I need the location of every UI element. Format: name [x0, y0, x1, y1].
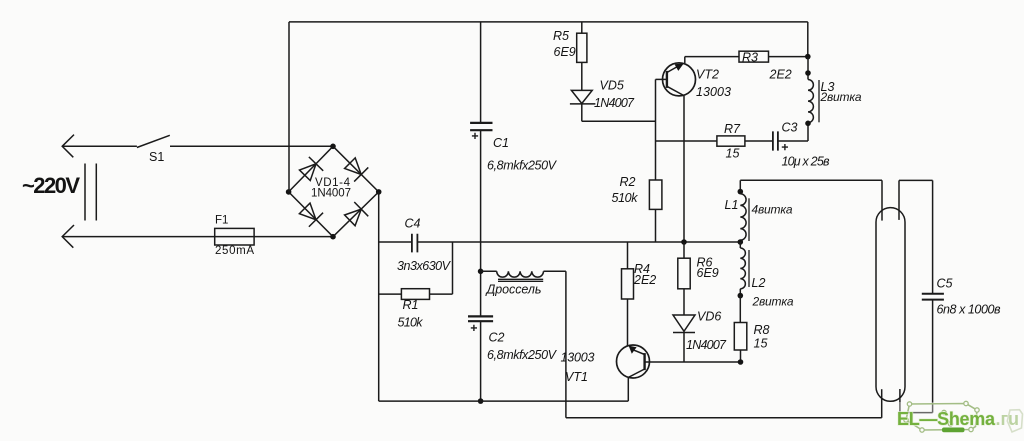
lamp pin bottom-right	[899, 389, 901, 413]
resistor R5	[581, 22, 583, 91]
wire: switch to bridge top	[170, 145, 333, 147]
wire: mid rail	[379, 241, 741, 243]
wire: top rail drop to R3 node	[807, 22, 809, 57]
svg-text:6E9: 6E9	[554, 45, 576, 59]
svg-text:VD5: VD5	[600, 79, 624, 93]
wire: lamp top right to C5	[899, 179, 933, 181]
wire: top lamp wire	[740, 179, 882, 181]
svg-text:2E2: 2E2	[769, 67, 792, 81]
fuse F1	[215, 228, 254, 245]
svg-text:~220V: ~220V	[22, 173, 80, 198]
diode VD2 (upper-right)	[343, 156, 368, 181]
node: R3/L3 junction	[805, 54, 811, 60]
wire: VD5 to base line	[582, 120, 656, 122]
svg-text:Дроссель: Дроссель	[485, 283, 542, 297]
transistor VT1	[617, 345, 650, 378]
node: L1/L2 mid rail junction	[738, 239, 744, 245]
lamp pin top-right	[898, 180, 900, 220]
wire: mains bottom to fuse	[62, 236, 215, 238]
resistor R6	[683, 242, 685, 315]
wire: VT2 emitter down to mid rail	[683, 96, 685, 242]
svg-text:2витка: 2витка	[820, 90, 862, 104]
capacitor C4	[412, 234, 418, 253]
inductor L2	[739, 242, 741, 248]
svg-text:6,8mkfx250V: 6,8mkfx250V	[487, 159, 558, 173]
svg-text:C2: C2	[489, 331, 505, 345]
svg-text:1N4007: 1N4007	[594, 96, 635, 110]
wire: lamp bottom right to C5	[900, 412, 933, 414]
wire: VT2 base line down to R2	[655, 79, 657, 242]
wire: VT1 base wire	[646, 361, 741, 363]
lamp pin top-left	[881, 180, 883, 220]
svg-text:6,8mkfx250V: 6,8mkfx250V	[487, 348, 558, 362]
mains terminal lines	[85, 164, 96, 221]
resistor R2	[649, 180, 662, 209]
svg-text:EL—Shema: EL—Shema	[897, 409, 996, 429]
node: bridge top	[330, 144, 336, 150]
diode VD5	[570, 90, 596, 104]
svg-text:15: 15	[726, 147, 740, 161]
node: choke/C1 junction	[478, 269, 484, 275]
inductor L3	[807, 57, 809, 80]
svg-text:R8: R8	[754, 323, 770, 337]
svg-text:1N4007: 1N4007	[311, 188, 351, 200]
svg-text:L1: L1	[725, 198, 739, 212]
svg-text:R3: R3	[742, 50, 758, 64]
svg-text:C5: C5	[937, 277, 953, 291]
capacitor C3	[773, 131, 778, 150]
wire: bridge right vertex down left column	[378, 192, 380, 401]
svg-text:6n8 x 1000в: 6n8 x 1000в	[937, 303, 1001, 317]
mains input arrow top	[62, 135, 74, 158]
diode VD1 (upper-left)	[298, 157, 323, 182]
svg-text:4витка: 4витка	[752, 203, 793, 217]
resistor R7	[656, 140, 773, 142]
wire: C3 to L3 bottom	[778, 123, 808, 141]
svg-text:6E9: 6E9	[697, 266, 719, 280]
wire: top rail	[289, 21, 808, 23]
svg-text:510k: 510k	[612, 191, 639, 205]
resistor R1	[379, 242, 453, 294]
svg-text:R1: R1	[403, 298, 419, 312]
diode VD6	[673, 315, 695, 333]
resistor R4	[627, 242, 629, 346]
inductor L1	[739, 180, 741, 194]
svg-text:13003: 13003	[561, 351, 595, 365]
node: bridge bottom	[330, 234, 336, 240]
fluorescent lamp EL	[876, 208, 905, 402]
inductor choke (Дроссель)	[481, 270, 497, 272]
svg-text:R5: R5	[553, 29, 569, 43]
lamp pin bottom-left	[881, 389, 883, 418]
svg-text:10μ x 25в: 10μ x 25в	[782, 155, 830, 169]
node: R8/VT1 base junction	[738, 359, 744, 365]
svg-text:R2: R2	[620, 175, 636, 189]
svg-text:C3: C3	[782, 121, 798, 135]
mains input arrow bottom	[62, 225, 74, 248]
node: C2 bottom rail junction	[478, 398, 484, 404]
svg-text:S1: S1	[149, 150, 164, 164]
svg-text:1N4007: 1N4007	[686, 338, 727, 352]
switch S1	[137, 135, 170, 147]
resistor R3	[685, 56, 808, 58]
capacitor C2	[468, 316, 493, 321]
wire: bridge left vertex up to top rail	[288, 22, 290, 192]
transistor VT2	[663, 63, 696, 96]
wire: fuse to bridge bottom	[254, 236, 333, 238]
svg-text:250mA: 250mA	[215, 245, 254, 257]
node: bridge right	[376, 189, 382, 195]
svg-text:510k: 510k	[398, 316, 424, 330]
node: mid rail / VT2 emitter / R6	[681, 239, 687, 245]
diode VD4 (lower-right)	[343, 202, 368, 227]
watermark EL-Shema.ru	[891, 401, 1024, 435]
svg-text:2витка: 2витка	[752, 295, 794, 309]
bridge rectifier VD1-4 diamond	[289, 146, 379, 236]
wire: bottom lamp wire	[566, 417, 882, 419]
svg-text:13003: 13003	[696, 85, 731, 99]
svg-text:15: 15	[754, 337, 768, 351]
svg-text:2E2: 2E2	[633, 273, 656, 287]
wire: C1/C2 vertical line	[480, 22, 482, 401]
wire: VT1 emitter to bottom rail	[627, 377, 629, 401]
diode VD3 (lower-left)	[298, 201, 323, 226]
svg-text:L2: L2	[752, 276, 766, 290]
capacitor C1	[470, 123, 492, 130]
node: bridge left	[286, 189, 292, 195]
svg-text:VD6: VD6	[697, 310, 721, 324]
svg-text:C4: C4	[405, 217, 421, 231]
svg-text:R7: R7	[724, 122, 741, 136]
wire: bottom rail	[379, 400, 629, 402]
resistor R8	[739, 296, 741, 362]
capacitor C5	[932, 180, 934, 412]
svg-text:3n3x630V: 3n3x630V	[397, 259, 452, 273]
wire: choke drop to bottom	[565, 271, 567, 418]
svg-text:VT2: VT2	[696, 67, 719, 81]
svg-text:F1: F1	[215, 215, 228, 227]
svg-text:VT1: VT1	[565, 370, 588, 384]
svg-text:C1: C1	[493, 136, 509, 150]
wire: mains top to switch	[62, 145, 137, 147]
